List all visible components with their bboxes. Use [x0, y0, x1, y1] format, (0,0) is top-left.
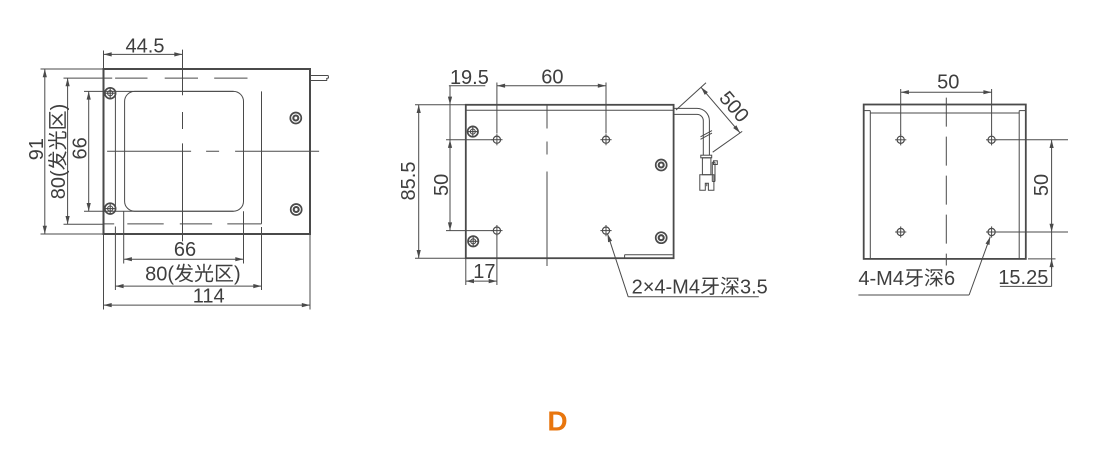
svg-text:): ) — [48, 104, 70, 111]
svg-text:60: 60 — [541, 66, 563, 88]
svg-text:44.5: 44.5 — [126, 35, 165, 57]
svg-text:91: 91 — [26, 138, 48, 160]
svg-text:50: 50 — [937, 72, 959, 94]
svg-text:80(: 80( — [145, 264, 174, 286]
svg-text:D: D — [547, 406, 567, 437]
svg-text:17: 17 — [473, 261, 495, 283]
svg-text:6: 6 — [944, 268, 955, 290]
svg-text:66: 66 — [69, 137, 91, 159]
svg-text:19.5: 19.5 — [450, 67, 489, 89]
svg-text:114: 114 — [193, 286, 225, 308]
svg-text:85.5: 85.5 — [398, 162, 420, 201]
svg-text:80(: 80( — [48, 170, 70, 199]
svg-text:3.5: 3.5 — [740, 276, 768, 298]
svg-text:15.25: 15.25 — [998, 267, 1048, 289]
svg-text:66: 66 — [174, 239, 196, 261]
svg-text:50: 50 — [1031, 174, 1053, 196]
svg-text:): ) — [234, 264, 241, 286]
svg-text:50: 50 — [431, 174, 453, 196]
svg-text:2×4-M4: 2×4-M4 — [632, 276, 700, 298]
svg-text:4-M4: 4-M4 — [858, 268, 904, 290]
